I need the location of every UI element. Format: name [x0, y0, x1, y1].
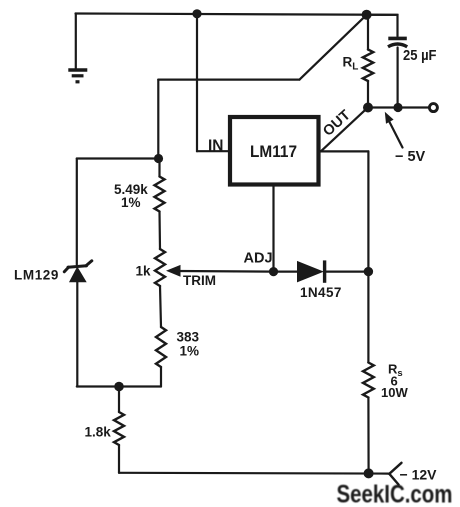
wire ground drop	[75, 14, 77, 69]
wire 1.8k bottom lead	[118, 445, 120, 473]
wire output lead	[368, 106, 429, 108]
wire bottom-left horizontal	[77, 385, 161, 387]
wire IN to regulator	[197, 150, 229, 152]
wire left-mid vertical	[157, 80, 159, 159]
junction dot -12V node	[364, 468, 374, 478]
svg-text:1.8k: 1.8k	[85, 425, 112, 440]
junction dot diode-rail node	[364, 267, 373, 276]
arrow -5V pointer	[385, 112, 403, 148]
terminal output open circle	[429, 104, 437, 112]
wire divider upper lead	[158, 159, 160, 177]
svg-text:− 5V: − 5V	[395, 149, 426, 165]
wire IN vertical	[196, 14, 198, 151]
junction dot node IN tap	[192, 9, 201, 18]
wire trim wiper	[177, 270, 274, 273]
wire ADJ drop	[272, 185, 274, 272]
wire OUT horizontal	[321, 150, 369, 152]
zener diode D1 LM129	[64, 261, 92, 282]
wire ADJ node to diode anode	[274, 271, 299, 273]
wire R1 to pot	[158, 212, 161, 250]
svg-text:LM117: LM117	[250, 143, 297, 161]
wire node to left branch	[77, 157, 159, 159]
wire RL top lead	[367, 15, 369, 50]
wire cap feed	[367, 15, 398, 36]
svg-text:1N457: 1N457	[300, 285, 342, 300]
wire RL bottom lead	[367, 81, 369, 108]
ground	[68, 70, 87, 82]
svg-text:TRIM: TRIM	[183, 273, 216, 288]
diode D2 1N457	[298, 260, 325, 282]
junction dot 1.8k tap	[114, 382, 124, 392]
resistor R1 5.49k 1%	[155, 177, 165, 212]
terminal -12V chevron	[389, 463, 401, 485]
wire zener top lead	[76, 159, 78, 265]
junction dot top-right input node	[362, 10, 372, 20]
junction dot divider top node	[154, 154, 163, 163]
wire rail to RS	[367, 272, 369, 363]
resistor R3 383 1%	[156, 327, 166, 367]
wire diode cathode to rail	[325, 271, 369, 273]
svg-text:1%: 1%	[180, 344, 200, 359]
resistor RS 6 ohm 10W	[363, 363, 374, 398]
capacitor C1 25 uF	[388, 38, 407, 107]
wire diagonal input feed	[300, 15, 367, 80]
svg-text:SeekIC.com: SeekIC.com	[337, 481, 453, 507]
junction dot -5V node right	[393, 103, 402, 112]
regulator U1 LM117	[230, 117, 319, 185]
svg-text:383: 383	[177, 330, 200, 345]
svg-text:ADJ: ADJ	[244, 251, 273, 267]
svg-text:25 µF: 25 µF	[403, 48, 437, 64]
wire mid horizontal feed	[158, 78, 299, 80]
svg-text:IN: IN	[208, 138, 224, 155]
wire R3 bottom lead	[160, 367, 162, 387]
resistor RL	[363, 50, 373, 82]
junction dot -5V node left	[363, 103, 373, 113]
svg-text:10W: 10W	[381, 385, 408, 400]
resistor R4 1.8k	[114, 412, 124, 445]
svg-text:1k: 1k	[136, 264, 152, 279]
wire top rail	[76, 14, 398, 15]
wire right rail upper	[367, 151, 369, 271]
wire zener bottom lead	[76, 282, 78, 387]
junction dot ADJ node	[269, 267, 278, 276]
wire pot to R3	[160, 286, 161, 327]
svg-text:LM129: LM129	[14, 268, 59, 283]
wire 1.8k top lead	[118, 387, 120, 413]
svg-text:1%: 1%	[121, 195, 141, 210]
wire OUT diagonal to -5V node	[321, 108, 368, 151]
wire bottom rail	[119, 472, 389, 475]
potentiometer R2 1k	[155, 249, 165, 286]
wire RS bottom lead	[367, 398, 369, 474]
svg-text:RL: RL	[343, 54, 359, 72]
arrowhead TRIM wiper	[166, 265, 181, 277]
